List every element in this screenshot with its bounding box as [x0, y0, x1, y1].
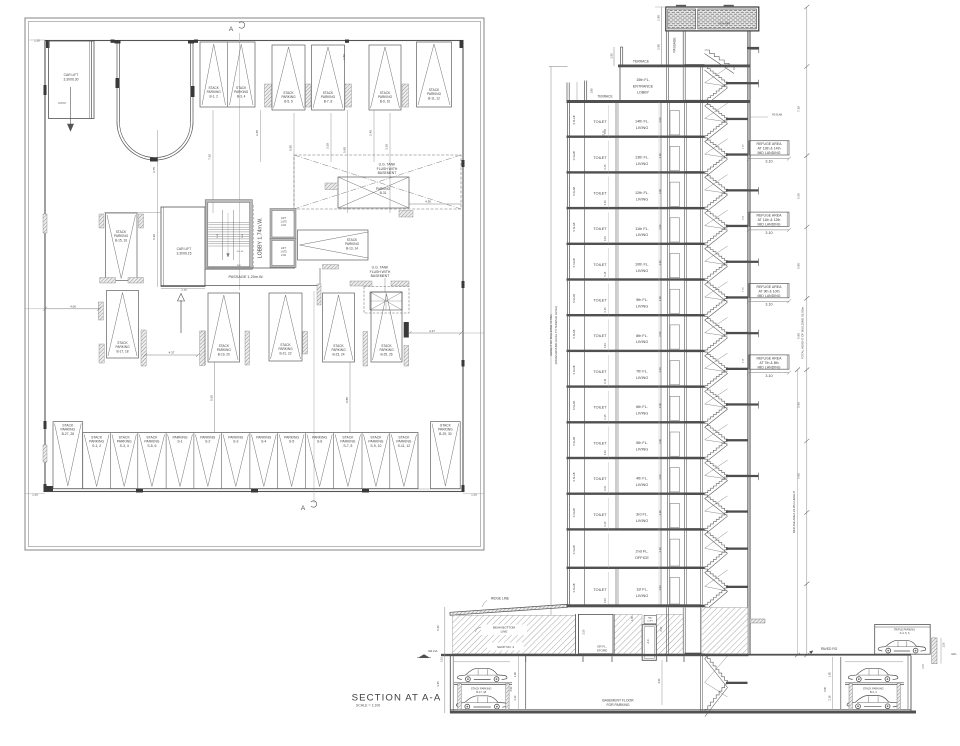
- svg-text:1.50: 1.50: [609, 53, 613, 59]
- svg-text:1.80: 1.80: [657, 15, 661, 21]
- svg-text:REFUGE AREA: REFUGE AREA: [757, 285, 783, 289]
- svg-text:STACK PARKING: STACK PARKING: [863, 686, 884, 690]
- svg-text:7th FL.: 7th FL.: [636, 370, 648, 374]
- svg-text:4.17: 4.17: [429, 329, 435, 333]
- svg-text:4.35: 4.35: [425, 200, 431, 204]
- svg-text:10th FL.: 10th FL.: [635, 263, 649, 267]
- svg-text:S-2: S-2: [205, 440, 210, 444]
- svg-text:0.15: 0.15: [604, 485, 607, 490]
- svg-text:LOBBY 1.74m.W.: LOBBY 1.74m.W.: [258, 218, 264, 259]
- svg-text:1st FL.: 1st FL.: [636, 588, 648, 592]
- svg-text:6.30: 6.30: [152, 234, 156, 240]
- svg-text:B-9, 10: B-9, 10: [380, 99, 391, 103]
- svg-text:S.SLAB: S.SLAB: [572, 437, 576, 446]
- svg-text:MID: MID: [648, 618, 652, 620]
- svg-text:S-3, 4: S-3, 4: [120, 444, 129, 448]
- svg-text:0.15: 0.15: [604, 597, 607, 602]
- svg-text:3.90: 3.90: [510, 686, 513, 691]
- svg-text:B-19, 20: B-19, 20: [218, 352, 230, 356]
- svg-text:B-25, 26: B-25, 26: [380, 352, 392, 356]
- svg-text:B-3, 4: B-3, 4: [237, 94, 246, 98]
- svg-text:OFFICE: OFFICE: [635, 556, 649, 560]
- svg-text:TOILET: TOILET: [593, 299, 607, 303]
- svg-text:3rd FL.: 3rd FL.: [636, 512, 648, 516]
- svg-text:B-17, 18: B-17, 18: [476, 690, 486, 694]
- svg-text:AT 13th & 14th: AT 13th & 14th: [757, 147, 780, 151]
- svg-text:5.40: 5.40: [436, 625, 440, 631]
- svg-text:1.90: 1.90: [631, 615, 634, 620]
- svg-text:15th FL.: 15th FL.: [636, 78, 650, 82]
- svg-text:0.15: 0.15: [604, 450, 607, 455]
- svg-text:S.SLAB: S.SLAB: [572, 222, 576, 231]
- svg-text:S-5, 6: S-5, 6: [147, 444, 156, 448]
- svg-text:4th FL.: 4th FL.: [636, 477, 648, 481]
- svg-text:GR.L: GR.L: [951, 653, 957, 656]
- svg-text:0.85: 0.85: [345, 397, 349, 403]
- svg-text:LIVING: LIVING: [636, 594, 648, 598]
- svg-text:3.10: 3.10: [603, 130, 606, 135]
- svg-text:2.16: 2.16: [828, 695, 831, 700]
- svg-text:0.15: 0.15: [604, 521, 607, 526]
- svg-text:3.30X6.30: 3.30X6.30: [63, 78, 78, 82]
- svg-text:TOILET: TOILET: [593, 120, 607, 124]
- svg-text:5.90: 5.90: [343, 147, 347, 153]
- svg-text:BASEMENT FLOOR: BASEMENT FLOOR: [602, 698, 634, 702]
- svg-text:STACK PARKING: STACK PARKING: [471, 687, 492, 691]
- svg-text:5.95: 5.95: [289, 145, 293, 151]
- svg-text:S-11, 12: S-11, 12: [398, 444, 411, 448]
- svg-text:S.SLAB: S.SLAB: [572, 545, 576, 554]
- svg-text:1.80: 1.80: [590, 88, 594, 94]
- svg-text:LINE: LINE: [501, 630, 508, 634]
- svg-text:0.15: 0.15: [604, 271, 607, 276]
- svg-text:BASEMENT: BASEMENT: [378, 171, 397, 175]
- svg-text:SCALE = 1:100: SCALE = 1:100: [356, 703, 380, 707]
- svg-text:3.90: 3.90: [660, 626, 663, 631]
- svg-text:1.50: 1.50: [34, 38, 40, 42]
- svg-text:3.10: 3.10: [765, 303, 772, 307]
- svg-text:2.10: 2.10: [514, 695, 517, 700]
- svg-text:3.39: 3.39: [326, 143, 330, 149]
- svg-text:REFUGE AREA: REFUGE AREA: [757, 214, 783, 218]
- svg-text:4.37: 4.37: [169, 351, 175, 355]
- svg-text:B-1, 2: B-1, 2: [209, 94, 218, 98]
- svg-text:2.04: 2.04: [281, 254, 286, 257]
- svg-text:SHOP NO. 4: SHOP NO. 4: [497, 645, 514, 649]
- svg-text:TERRACE: TERRACE: [633, 59, 650, 63]
- svg-text:FFD: FFD: [237, 265, 242, 267]
- svg-text:3.39: 3.39: [385, 144, 389, 150]
- svg-text:B-15, 16: B-15, 16: [115, 238, 127, 242]
- svg-text:5.80: 5.80: [797, 473, 801, 479]
- svg-text:B-3, 4: B-3, 4: [870, 690, 877, 694]
- svg-text:0.15: 0.15: [604, 235, 607, 240]
- svg-text:1.80: 1.80: [514, 671, 517, 676]
- svg-text:LIVING: LIVING: [636, 162, 648, 166]
- svg-text:1.50: 1.50: [342, 54, 346, 60]
- svg-text:S-4, 5, 6: S-4, 5, 6: [900, 631, 910, 635]
- svg-text:3.90: 3.90: [824, 686, 827, 691]
- svg-text:BASEMENT: BASEMENT: [371, 274, 390, 278]
- svg-text:3.30X6.15: 3.30X6.15: [176, 252, 191, 256]
- svg-text:SECTION AT A-A: SECTION AT A-A: [352, 693, 442, 704]
- svg-text:5.80: 5.80: [797, 402, 801, 408]
- svg-text:MID LANDING: MID LANDING: [758, 294, 781, 298]
- svg-text:STORE: STORE: [597, 648, 607, 652]
- svg-text:CAR LIFT: CAR LIFT: [177, 247, 192, 251]
- svg-text:B-31: B-31: [380, 191, 387, 195]
- svg-text:TOILET: TOILET: [593, 192, 607, 196]
- svg-text:S.SLAB: S.SLAB: [572, 401, 576, 410]
- svg-text:5th FL.: 5th FL.: [636, 441, 648, 445]
- svg-text:0.15: 0.15: [440, 656, 443, 661]
- svg-text:S.SLAB: S.SLAB: [572, 508, 576, 517]
- svg-text:GR.LVL: GR.LVL: [428, 649, 438, 653]
- svg-text:13th FL.: 13th FL.: [635, 155, 649, 159]
- svg-text:TOILET: TOILET: [593, 513, 607, 517]
- svg-text:TOILET: TOILET: [593, 370, 607, 374]
- svg-text:2.50: 2.50: [582, 629, 585, 634]
- svg-text:S.SLAB: S.SLAB: [572, 365, 576, 374]
- svg-text:3.10: 3.10: [765, 374, 772, 378]
- svg-text:REFUGE AREA 23.95m HEIGHT: REFUGE AREA 23.95m HEIGHT: [792, 490, 796, 533]
- svg-text:1.80: 1.80: [828, 671, 831, 676]
- svg-text:REFUGE AREA: REFUGE AREA: [757, 356, 783, 360]
- svg-text:CAR LIFT: CAR LIFT: [64, 73, 79, 77]
- svg-text:LOFT: LOFT: [647, 621, 653, 623]
- svg-text:B-29, 30: B-29, 30: [439, 432, 452, 436]
- svg-text:MID LANDING: MID LANDING: [758, 151, 781, 155]
- svg-text:S.SLAB: S.SLAB: [572, 187, 576, 196]
- svg-text:S.SLAB: S.SLAB: [572, 329, 576, 338]
- svg-text:LIVING: LIVING: [636, 412, 648, 416]
- svg-text:0.15: 0.15: [923, 663, 925, 668]
- svg-text:7.28: 7.28: [797, 106, 801, 112]
- svg-text:S-1, 2: S-1, 2: [92, 444, 101, 448]
- svg-text:3.30: 3.30: [181, 287, 187, 291]
- svg-text:A: A: [301, 505, 306, 512]
- svg-text:S-7, 8: S-7, 8: [343, 444, 352, 448]
- svg-text:LIVING: LIVING: [636, 126, 648, 130]
- svg-text:LIVING: LIVING: [636, 198, 648, 202]
- svg-text:LIVING: LIVING: [636, 305, 648, 309]
- svg-text:TRIPLE PARKING: TRIPLE PARKING: [894, 628, 915, 632]
- svg-text:3.10: 3.10: [765, 160, 772, 164]
- svg-text:S-4: S-4: [261, 440, 266, 444]
- svg-text:4.35: 4.35: [436, 681, 440, 687]
- svg-text:0.15: 0.15: [604, 343, 607, 348]
- svg-text:AT 11th & 12th: AT 11th & 12th: [758, 218, 781, 222]
- svg-text:TOILET: TOILET: [593, 477, 607, 481]
- svg-text:12th FL.: 12th FL.: [635, 191, 649, 195]
- svg-text:TERRACE: TERRACE: [597, 95, 612, 99]
- svg-text:B-7, 8: B-7, 8: [324, 99, 333, 103]
- svg-text:B-5, 6: B-5, 6: [284, 99, 293, 103]
- svg-text:TOILET: TOILET: [593, 441, 607, 445]
- svg-text:5.65: 5.65: [210, 395, 214, 401]
- svg-text:11th FL.: 11th FL.: [635, 227, 649, 231]
- svg-text:2.04: 2.04: [281, 224, 286, 227]
- svg-text:3.10: 3.10: [765, 231, 772, 235]
- svg-text:B-21, 22: B-21, 22: [279, 351, 291, 355]
- svg-text:LIVING: LIVING: [636, 447, 648, 451]
- svg-text:LIVING: LIVING: [636, 269, 648, 273]
- svg-text:RIDGE LINE: RIDGE LINE: [491, 597, 509, 601]
- svg-text:8th FL.: 8th FL.: [636, 334, 648, 338]
- svg-text:0.15: 0.15: [604, 200, 607, 205]
- svg-text:B-11, 12: B-11, 12: [428, 96, 440, 100]
- svg-text:S-9, 10: S-9, 10: [370, 444, 381, 448]
- svg-text:TOILET: TOILET: [593, 227, 607, 231]
- svg-text:TOILET: TOILET: [593, 334, 607, 338]
- svg-text:2.45: 2.45: [369, 130, 373, 136]
- svg-text:LIVING: LIVING: [636, 519, 648, 523]
- svg-text:MID LANDING: MID LANDING: [758, 365, 781, 369]
- svg-text:S.SLAB: S.SLAB: [572, 294, 576, 303]
- svg-text:S-6: S-6: [317, 440, 322, 444]
- svg-text:TOILET: TOILET: [593, 406, 607, 410]
- svg-text:PASSAGE 1.20m.W.: PASSAGE 1.20m.W.: [229, 275, 264, 279]
- svg-text:TOILET: TOILET: [593, 263, 607, 267]
- svg-text:14th FL.: 14th FL.: [635, 120, 649, 124]
- svg-text:B-17, 18: B-17, 18: [116, 349, 128, 353]
- svg-text:7.20: 7.20: [208, 154, 212, 160]
- svg-text:1.50: 1.50: [32, 493, 38, 497]
- svg-text:0.15: 0.15: [604, 378, 607, 383]
- svg-text:HEIGHT OF BUILDING 47.55m: HEIGHT OF BUILDING 47.55m: [549, 313, 553, 356]
- svg-text:AT 9th & 10th: AT 9th & 10th: [758, 290, 779, 294]
- svg-text:1.50: 1.50: [942, 642, 945, 647]
- svg-text:1.50: 1.50: [471, 493, 477, 497]
- svg-text:REFUGE AREA: REFUGE AREA: [757, 142, 783, 146]
- svg-text:MID LANDING: MID LANDING: [758, 223, 781, 227]
- svg-text:TOILET: TOILET: [593, 156, 607, 160]
- svg-text:ENTRANCE: ENTRANCE: [633, 84, 654, 88]
- svg-text:5.80: 5.80: [797, 263, 801, 269]
- svg-text:PASSAGE: PASSAGE: [673, 38, 677, 53]
- svg-text:4.00: 4.00: [70, 304, 76, 308]
- svg-text:0.15: 0.15: [604, 164, 607, 169]
- svg-text:LOBBY: LOBBY: [637, 91, 650, 95]
- svg-text:LIVING: LIVING: [636, 483, 648, 487]
- svg-text:S.SLAB: S.SLAB: [572, 151, 576, 160]
- svg-text:RD SLAB: RD SLAB: [772, 114, 782, 117]
- svg-text:0.15: 0.15: [604, 414, 607, 419]
- svg-text:PAVED RG: PAVED RG: [821, 647, 838, 651]
- svg-text:B-23, 24: B-23, 24: [332, 352, 344, 356]
- svg-text:LIVING: LIVING: [636, 376, 648, 380]
- svg-text:FOR PARKING: FOR PARKING: [606, 703, 629, 707]
- svg-text:TOTAL HEIGHT OF BUILDING 52.05: TOTAL HEIGHT OF BUILDING 52.05m: [801, 306, 805, 359]
- svg-text:N-1.50: N-1.50: [237, 251, 244, 253]
- svg-text:(FROM GROUND LEVEL TO TERRACE: (FROM GROUND LEVEL TO TERRACE LEVEL): [554, 306, 558, 365]
- svg-text:S-1: S-1: [177, 440, 182, 444]
- svg-text:B-27, 28: B-27, 28: [62, 432, 75, 436]
- svg-text:O.H. WT.: O.H. WT.: [718, 22, 730, 26]
- svg-text:5.59: 5.59: [797, 193, 801, 199]
- svg-text:4.30: 4.30: [658, 678, 661, 683]
- svg-text:2.45: 2.45: [255, 130, 259, 136]
- svg-text:6th FL.: 6th FL.: [636, 405, 648, 409]
- svg-text:2nd FL.: 2nd FL.: [636, 549, 649, 553]
- svg-text:S.SLAB: S.SLAB: [572, 115, 576, 124]
- svg-text:A: A: [229, 26, 234, 33]
- svg-text:S-5: S-5: [289, 440, 294, 444]
- svg-text:LIVING: LIVING: [636, 340, 648, 344]
- svg-text:S.SLAB: S.SLAB: [572, 472, 576, 481]
- svg-text:S.SLAB: S.SLAB: [572, 258, 576, 267]
- svg-text:A.C.: A.C.: [647, 638, 650, 643]
- svg-text:LIVING: LIVING: [636, 233, 648, 237]
- svg-text:2.80: 2.80: [657, 44, 661, 50]
- svg-text:0.15: 0.15: [604, 307, 607, 312]
- svg-text:AT 7th & 8th: AT 7th & 8th: [759, 361, 778, 365]
- svg-text:TOILET: TOILET: [593, 588, 607, 592]
- svg-text:B-13, 14: B-13, 14: [346, 246, 358, 250]
- svg-text:S.SLAB: S.SLAB: [572, 583, 576, 592]
- svg-text:9th FL.: 9th FL.: [636, 298, 648, 302]
- svg-text:S-3: S-3: [233, 440, 238, 444]
- svg-text:3.75: 3.75: [152, 167, 156, 173]
